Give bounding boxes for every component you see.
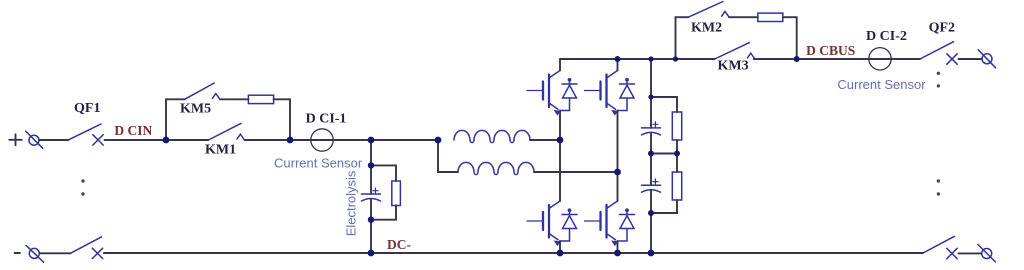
svg-text:Current Sensor: Current Sensor — [837, 77, 926, 92]
junction cap midpoint — [648, 151, 654, 157]
current sensor DCI-1 (circle) — [311, 129, 333, 151]
wire KM1 to node B — [245, 139, 291, 141]
wire right midpoint to Q4 — [617, 172, 619, 201]
junction KM2 branch right — [794, 56, 800, 62]
IGBT Q3 (bottom left, with diode D3) — [527, 201, 577, 246]
wire L2 to right leg midpoint — [534, 171, 618, 173]
resistor R3 (discharge) — [392, 181, 401, 206]
inductor L2 (lower) — [458, 162, 534, 174]
wire cap midpoint link — [651, 153, 677, 155]
wire riser DCIN node to KM5 branch — [166, 99, 185, 140]
resistor R2 (balancing, lower) — [672, 172, 681, 200]
svg-text:Current Sensor: Current Sensor — [274, 156, 363, 171]
breaker QF1 pole + (blade and contact X) — [69, 124, 104, 145]
wire left leg collector drop — [559, 59, 561, 71]
current sensor DCI-2 (circle) — [869, 48, 891, 70]
wire top rail (DC bus +) — [560, 58, 715, 60]
junction KM2 branch left — [673, 56, 678, 61]
wire X1 to QF1 — [39, 139, 69, 141]
svg-text:DC-: DC- — [387, 237, 411, 252]
wire left leg midpoint to Q3 — [559, 140, 561, 201]
wire C3 to bottom rail — [650, 191, 652, 253]
wire Q2 emitter to right midpoint — [617, 111, 619, 173]
continuation dots right upper — [937, 72, 940, 88]
IGBT Q4 (bottom right, with diode D4) — [585, 201, 635, 246]
svg-text:KM2: KM2 — [691, 21, 722, 36]
wire Q4 emitter to bottom rail — [617, 241, 619, 253]
IGBT Q2 (top right, with diode D2) — [585, 71, 635, 116]
junction Q3 emitter rail — [557, 250, 564, 257]
wire node B to node C through sensor — [290, 139, 438, 141]
minus label — [15, 252, 20, 254]
resistor R5 (pre-charge) — [248, 95, 273, 103]
wire X2 to QF1 lower pole — [39, 252, 70, 254]
wire Q3 emitter to bottom rail — [559, 241, 561, 253]
wire R1 to R2 — [676, 140, 678, 172]
junction node B — [287, 137, 294, 144]
junction Q2 collector rail — [615, 56, 621, 62]
terminal X3 (DC bus + out) — [978, 50, 995, 68]
contactor KM2 (blade and caret) — [688, 2, 728, 18]
wire jog to balancing resistors top — [651, 97, 677, 112]
continuation dots right lower — [937, 179, 940, 195]
wire KM5 to resistor R5 — [220, 98, 248, 100]
inductor L1 (upper) — [454, 130, 530, 142]
svg-text:Electrolysis: Electrolysis — [344, 170, 359, 236]
resistor R1 (balancing, upper) — [672, 112, 681, 140]
junction right leg midpoint — [614, 169, 621, 176]
capacitor C2 (bus, upper) — [642, 122, 661, 135]
junction left leg midpoint — [557, 137, 564, 144]
wire QF2 lower to terminal X4 — [959, 252, 982, 254]
terminal X4 (DC bus - out) — [978, 245, 996, 262]
wire right leg collector drop — [617, 59, 619, 71]
breaker QF2 pole - (blade and contact X) — [923, 236, 957, 258]
wire KM2 to resistor R4 — [729, 16, 758, 18]
wire jog resistor R3 bottom — [371, 206, 396, 220]
svg-text:KM3: KM3 — [718, 58, 749, 73]
wire riser to lower inductor — [438, 140, 458, 172]
wire riser node C down (electrolytic branch) — [370, 140, 372, 194]
wire DCIN node to KM1 — [166, 139, 208, 141]
wire bus cap branch upper — [650, 59, 652, 128]
plus label — [9, 134, 21, 145]
capacitor C3 (bus, lower) — [642, 179, 661, 192]
junction node L split — [435, 137, 442, 144]
wire C2 to cap midpoint — [650, 133, 652, 185]
junction R2 jog bottom — [648, 210, 654, 216]
continuation dots left — [81, 179, 84, 195]
junction resistor midpoint — [674, 151, 680, 157]
wire QF2 to terminal X3 — [959, 58, 983, 60]
junction R3 top — [368, 162, 374, 168]
junction bus caps bottom rail — [648, 250, 655, 257]
junction R3 bottom — [368, 217, 374, 223]
wire QF1 to node DCIN — [105, 139, 167, 141]
svg-text:D CBUS: D CBUS — [806, 43, 855, 58]
wire Q1 emitter to midpoint — [559, 111, 561, 141]
junction node C (cap branch top) — [368, 137, 375, 144]
junction R1 jog top — [648, 94, 653, 99]
junction bus caps top rail — [648, 56, 653, 61]
breaker QF1 pole - (blade and contact X) — [70, 237, 102, 259]
wire jog balancing resistors bottom — [651, 200, 677, 213]
capacitor C1 (electrolytic) — [362, 188, 381, 201]
svg-text:KM1: KM1 — [205, 143, 236, 158]
svg-text:D CIN: D CIN — [114, 123, 152, 138]
resistor R4 (bus pre-charge) — [758, 13, 783, 21]
wire L1 to left leg midpoint — [530, 139, 560, 141]
wire jog to resistor R3 top — [371, 165, 396, 181]
svg-text:QF1: QF1 — [74, 101, 100, 116]
contactor KM5 (blade and caret) — [185, 83, 220, 99]
breaker QF2 pole + (blade and contact X) — [920, 42, 957, 64]
junction Q4 emitter rail — [614, 250, 621, 257]
svg-text:KM5: KM5 — [180, 102, 211, 117]
terminal X1 (DC input +) — [26, 131, 43, 148]
wire bottom rail (DC-) — [104, 252, 923, 254]
svg-text:D CI-2: D CI-2 — [866, 29, 907, 44]
svg-text:D CI-1: D CI-1 — [306, 112, 347, 127]
wire R4 down to bus rail — [783, 17, 797, 59]
junction cap branch bottom rail — [368, 250, 375, 257]
wire R5 to node B riser — [274, 99, 290, 140]
wire riser to KM2 branch — [676, 17, 689, 59]
junction node DCIN — [163, 137, 170, 144]
terminal X2 (DC input -) — [26, 245, 44, 262]
contactor KM3 (blade and caret) — [715, 43, 755, 59]
IGBT Q1 (top left, with diode D1) — [527, 71, 577, 116]
wire C1 to bottom rail — [370, 200, 372, 254]
svg-text:QF2: QF2 — [929, 21, 955, 36]
contactor KM1 (blade and caret) — [208, 123, 243, 140]
wire top rail after KM3 — [754, 58, 920, 60]
